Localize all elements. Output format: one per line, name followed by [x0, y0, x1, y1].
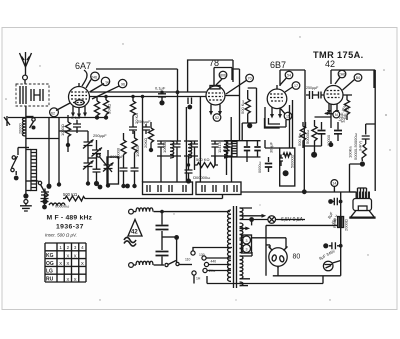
mains switch [165, 261, 192, 267]
avc line 500K [63, 192, 223, 201]
svg-text:500 KΩ: 500 KΩ [196, 157, 209, 162]
dot [57, 182, 61, 186]
svg-text:130: 130 [199, 253, 205, 257]
shield box2 contacts [202, 185, 237, 192]
power bottom line 2 [207, 276, 323, 284]
svg-text:250μμF: 250μμF [306, 86, 319, 90]
tube 78 [206, 86, 225, 106]
svg-text:42: 42 [131, 230, 138, 236]
danger triangle [128, 220, 142, 237]
svg-text:20KΩ: 20KΩ [107, 104, 112, 114]
antenna earth circle [24, 200, 28, 204]
main line dot [23, 193, 28, 198]
lamp dot stub [251, 220, 253, 226]
transformer primary [228, 210, 231, 281]
grid leak branch [348, 124, 376, 167]
coil L1 [19, 118, 26, 136]
svg-text:TMR 175A.: TMR 175A. [313, 50, 364, 60]
pin circle 54 [280, 71, 293, 85]
transformer secondary 4 [240, 252, 253, 279]
tube 6B7 arrows [270, 108, 282, 119]
mains cap tap [162, 235, 179, 265]
wire x256 [248, 88, 257, 123]
svg-text:0000ω: 0000ω [258, 162, 262, 173]
tube 6B7 [267, 85, 287, 109]
svg-text:Ʊ00000ω: Ʊ00000ω [193, 175, 210, 180]
pin circle 52 [213, 114, 221, 122]
svg-text:X: X [66, 261, 69, 266]
svg-text:42: 42 [325, 59, 335, 69]
svg-text:00000ω: 00000ω [55, 204, 69, 209]
bus junction dots [47, 184, 130, 190]
ac squiggle [124, 237, 136, 246]
power loop inner wires [252, 238, 286, 249]
transformer secondary 5 [240, 282, 249, 286]
svg-text:X: X [66, 277, 69, 282]
lamp dot [249, 217, 254, 222]
IF2 feed wires [231, 117, 256, 141]
transformer core [234, 206, 237, 288]
svg-text:6,5V-0,5A: 6,5V-0,5A [281, 217, 304, 223]
svg-text:30μμF: 30μμF [270, 141, 274, 153]
svg-text:X: X [74, 253, 77, 258]
42 cathode resistor [344, 95, 349, 120]
screen drop vertical [199, 97, 201, 183]
detector cluster resistor a [300, 122, 310, 146]
coupling caps 6B7-42 [306, 86, 324, 99]
svg-text:X: X [74, 277, 77, 282]
tuning gang cap 1 [83, 131, 94, 186]
antenna [20, 52, 32, 75]
svg-text:(HHV): (HHV) [359, 141, 363, 151]
wave switch left [11, 148, 18, 176]
svg-text:50000Ω: 50000Ω [291, 154, 295, 168]
svg-text:KG: KG [46, 253, 54, 259]
detector cluster resistor b [312, 120, 317, 152]
6B7 box [280, 70, 305, 127]
cathode resistor 1000 [60, 115, 71, 147]
cap pair to ground b [131, 162, 139, 188]
coil label bottom left [49, 203, 69, 208]
trimmer box [107, 157, 119, 184]
lamp [268, 216, 276, 224]
svg-text:70: 70 [248, 77, 252, 81]
dot x186 [176, 90, 180, 94]
circle 14 [331, 180, 338, 192]
pin circle 2H6 [335, 70, 346, 84]
wire grid row [59, 131, 88, 152]
avc dot [47, 184, 52, 189]
tube 78 arrows [209, 105, 222, 116]
svg-text:3: 3 [246, 248, 248, 252]
voltage selector [185, 248, 232, 284]
output transformer [356, 188, 371, 199]
svg-text:10000: 10000 [162, 141, 167, 153]
tuning gang cap col B [88, 140, 102, 186]
svg-text:0,1μF: 0,1μF [155, 86, 166, 91]
svg-text:B6: B6 [356, 76, 360, 80]
svg-text:20000: 20000 [19, 123, 23, 134]
resistor 500K horizontal [195, 156, 219, 168]
oscillator coil [26, 150, 37, 191]
svg-text:1H: 1H [196, 277, 201, 281]
svg-text:6B7: 6B7 [270, 60, 286, 70]
filter cap 2 [318, 242, 342, 261]
avc caps row [129, 119, 151, 134]
bus dot [302, 189, 307, 194]
svg-text:50000ω: 50000ω [305, 130, 310, 144]
42 bypass caps [331, 104, 348, 128]
anode bus wire [90, 91, 207, 93]
tube 6A7 [69, 83, 90, 108]
switch dot [14, 176, 19, 181]
IF1 vertical feed [142, 97, 144, 183]
IF1 can group2 [184, 141, 198, 158]
tube 6A7 cathode arrows [71, 106, 87, 118]
svg-text:250μμF: 250μμF [137, 119, 151, 124]
78 grid box [214, 68, 240, 141]
svg-text:3: 3 [246, 239, 248, 243]
screen bus wire [89, 96, 207, 98]
vertical x186 [185, 107, 187, 182]
svg-text:10000: 10000 [116, 147, 121, 159]
IF1 can group1 [157, 141, 181, 158]
wire to tuning [26, 138, 59, 140]
cap det [185, 156, 193, 184]
resistor 10000 b [132, 131, 140, 162]
svg-text:X: X [81, 261, 84, 266]
svg-text:X: X [66, 253, 69, 258]
stray mark [4, 116, 10, 126]
svg-text:2H6: 2H6 [339, 73, 346, 77]
IF2 coil [232, 142, 237, 157]
svg-text:52: 52 [215, 116, 219, 120]
detector cluster cap b [334, 122, 342, 141]
padder cap [41, 197, 49, 210]
pin circle 15 [280, 108, 292, 120]
pin circle box78 [216, 71, 227, 85]
svg-text:OG: OG [46, 261, 54, 267]
detector vertical [303, 127, 305, 192]
corner wires [265, 118, 281, 128]
resistor 20K b [130, 95, 138, 124]
speaker magnet [353, 199, 372, 211]
svg-text:11413: 11413 [217, 141, 222, 153]
svg-text:1936-37: 1936-37 [56, 224, 84, 231]
svg-text:806: 806 [220, 74, 226, 78]
resistor 500K 78 [240, 90, 252, 128]
IF2 cap b [244, 141, 250, 157]
svg-text:10000: 10000 [135, 145, 140, 157]
junction bar [18, 147, 29, 149]
pin circle 9a [90, 77, 110, 92]
42 box [331, 70, 374, 88]
svg-text:440: 440 [211, 260, 217, 264]
pin circle 96 [92, 79, 127, 99]
scan speckles [5, 36, 391, 300]
svg-text:80: 80 [293, 254, 301, 261]
IF shield box 1 [143, 182, 193, 195]
transformer secondary 3 [240, 240, 244, 253]
lamp line [240, 219, 305, 221]
trimmer switch [97, 154, 112, 172]
IF2 can rails [224, 141, 261, 157]
svg-text:17: 17 [294, 84, 298, 88]
pin circle B6 [343, 74, 362, 90]
svg-text:14: 14 [332, 182, 336, 186]
tube 80 [269, 247, 288, 269]
svg-text:Inscr. 500 Ω μV.: Inscr. 500 Ω μV. [45, 233, 77, 238]
svg-text:N: N [335, 113, 338, 117]
circle 10 [323, 261, 340, 271]
dot IF feed top [141, 95, 144, 98]
svg-text:500 Ka: 500 Ka [297, 133, 302, 146]
IF shield box 2 [196, 182, 241, 195]
avc end dot [104, 115, 108, 119]
main bottom bus [241, 191, 356, 193]
pin circle 70 [226, 74, 253, 94]
IF2 cap a [223, 141, 229, 157]
detector cluster cap a [318, 122, 332, 146]
resistor 20K [103, 95, 111, 118]
cap bottom left [41, 189, 49, 205]
cap bottom right [258, 157, 272, 173]
svg-text:50000-50000ω: 50000-50000ω [353, 133, 358, 160]
svg-text:62: 62 [51, 112, 55, 116]
transformer secondary 1 [240, 208, 267, 219]
mains input top [129, 208, 230, 214]
tube 42 arrows [327, 104, 339, 115]
band table [45, 243, 86, 282]
osc switch right [26, 181, 48, 197]
tube 80 stem [277, 266, 279, 276]
pin circle 246 [86, 72, 99, 88]
cathode resistor 2 [94, 97, 99, 120]
svg-text:X: X [59, 261, 62, 266]
heater circles [242, 235, 252, 253]
svg-text:246: 246 [91, 76, 97, 80]
svg-text:500 Kω: 500 Kω [240, 100, 245, 114]
svg-text:500 KΩ: 500 KΩ [63, 192, 77, 197]
volume box [279, 148, 295, 186]
svg-text:110: 110 [185, 258, 191, 262]
svg-text:6A7: 6A7 [75, 61, 91, 71]
svg-text:M F - 489 kHz: M F - 489 kHz [47, 215, 93, 222]
cap 0.1uF [155, 86, 166, 106]
svg-text:2Ho: 2Ho [209, 269, 215, 273]
avc wire [8, 118, 106, 185]
resistor 20K IF [143, 122, 154, 152]
antenna coupling box (dashed) [16, 84, 49, 106]
tuning gang cap 2 [103, 150, 114, 188]
mains input bottom [129, 261, 164, 267]
svg-text:54: 54 [287, 74, 291, 78]
svg-text:20KΩ: 20KΩ [143, 138, 148, 148]
IF1 verticals down [161, 156, 232, 182]
wire [24, 80, 26, 84]
pin circle N [324, 111, 340, 118]
cap 0.1uF grid [71, 115, 82, 133]
svg-text:96: 96 [121, 83, 125, 87]
diode plate wires [290, 100, 293, 148]
wire 78 right [225, 95, 240, 97]
svg-text:RU: RU [46, 276, 54, 282]
grid riser 78 [188, 60, 233, 92]
mains caps [156, 210, 169, 265]
antenna node circle [23, 75, 28, 80]
wire 6B7 down [265, 140, 280, 148]
detector cluster rails [303, 117, 331, 148]
plate wire 42 [343, 95, 362, 192]
IF1 can group3 [211, 141, 236, 158]
coupling cap 78 [187, 98, 192, 110]
wire antenna down [25, 106, 27, 196]
svg-text:2000Ω: 2000Ω [344, 219, 349, 231]
choke reak [332, 217, 349, 232]
IF2 down wires [227, 157, 248, 175]
IF2 cap c [254, 141, 260, 157]
pin circle 62 [50, 103, 70, 117]
tube 42 [324, 86, 343, 105]
transformer secondary 2 [240, 223, 251, 238]
ground [20, 204, 32, 212]
power rect loop [266, 192, 341, 276]
resistor 10000 a [116, 133, 127, 162]
diode loop below 6B7 [265, 107, 286, 127]
pin circle 17 [285, 82, 300, 92]
svg-text:250μμF: 250μμF [93, 133, 107, 138]
svg-text:1000Ω: 1000Ω [60, 124, 65, 136]
wire column x59 [58, 117, 60, 185]
leader from label [82, 70, 87, 86]
svg-text:01300: 01300 [188, 142, 193, 154]
right vertical bus [374, 70, 375, 191]
cap pair to ground a [120, 162, 128, 188]
svg-text:78: 78 [209, 58, 219, 68]
svg-text:LG: LG [46, 269, 53, 275]
band switch top [26, 117, 36, 130]
shield box1 contacts [147, 185, 186, 192]
svg-text:9a: 9a [106, 81, 110, 85]
dot stub right [329, 141, 334, 147]
filter cap 1 [326, 198, 342, 226]
dot under resistor [311, 152, 317, 158]
svg-text:100Ka: 100Ka [348, 146, 353, 158]
speaker cone [349, 211, 375, 218]
top bus wire [96, 69, 178, 141]
